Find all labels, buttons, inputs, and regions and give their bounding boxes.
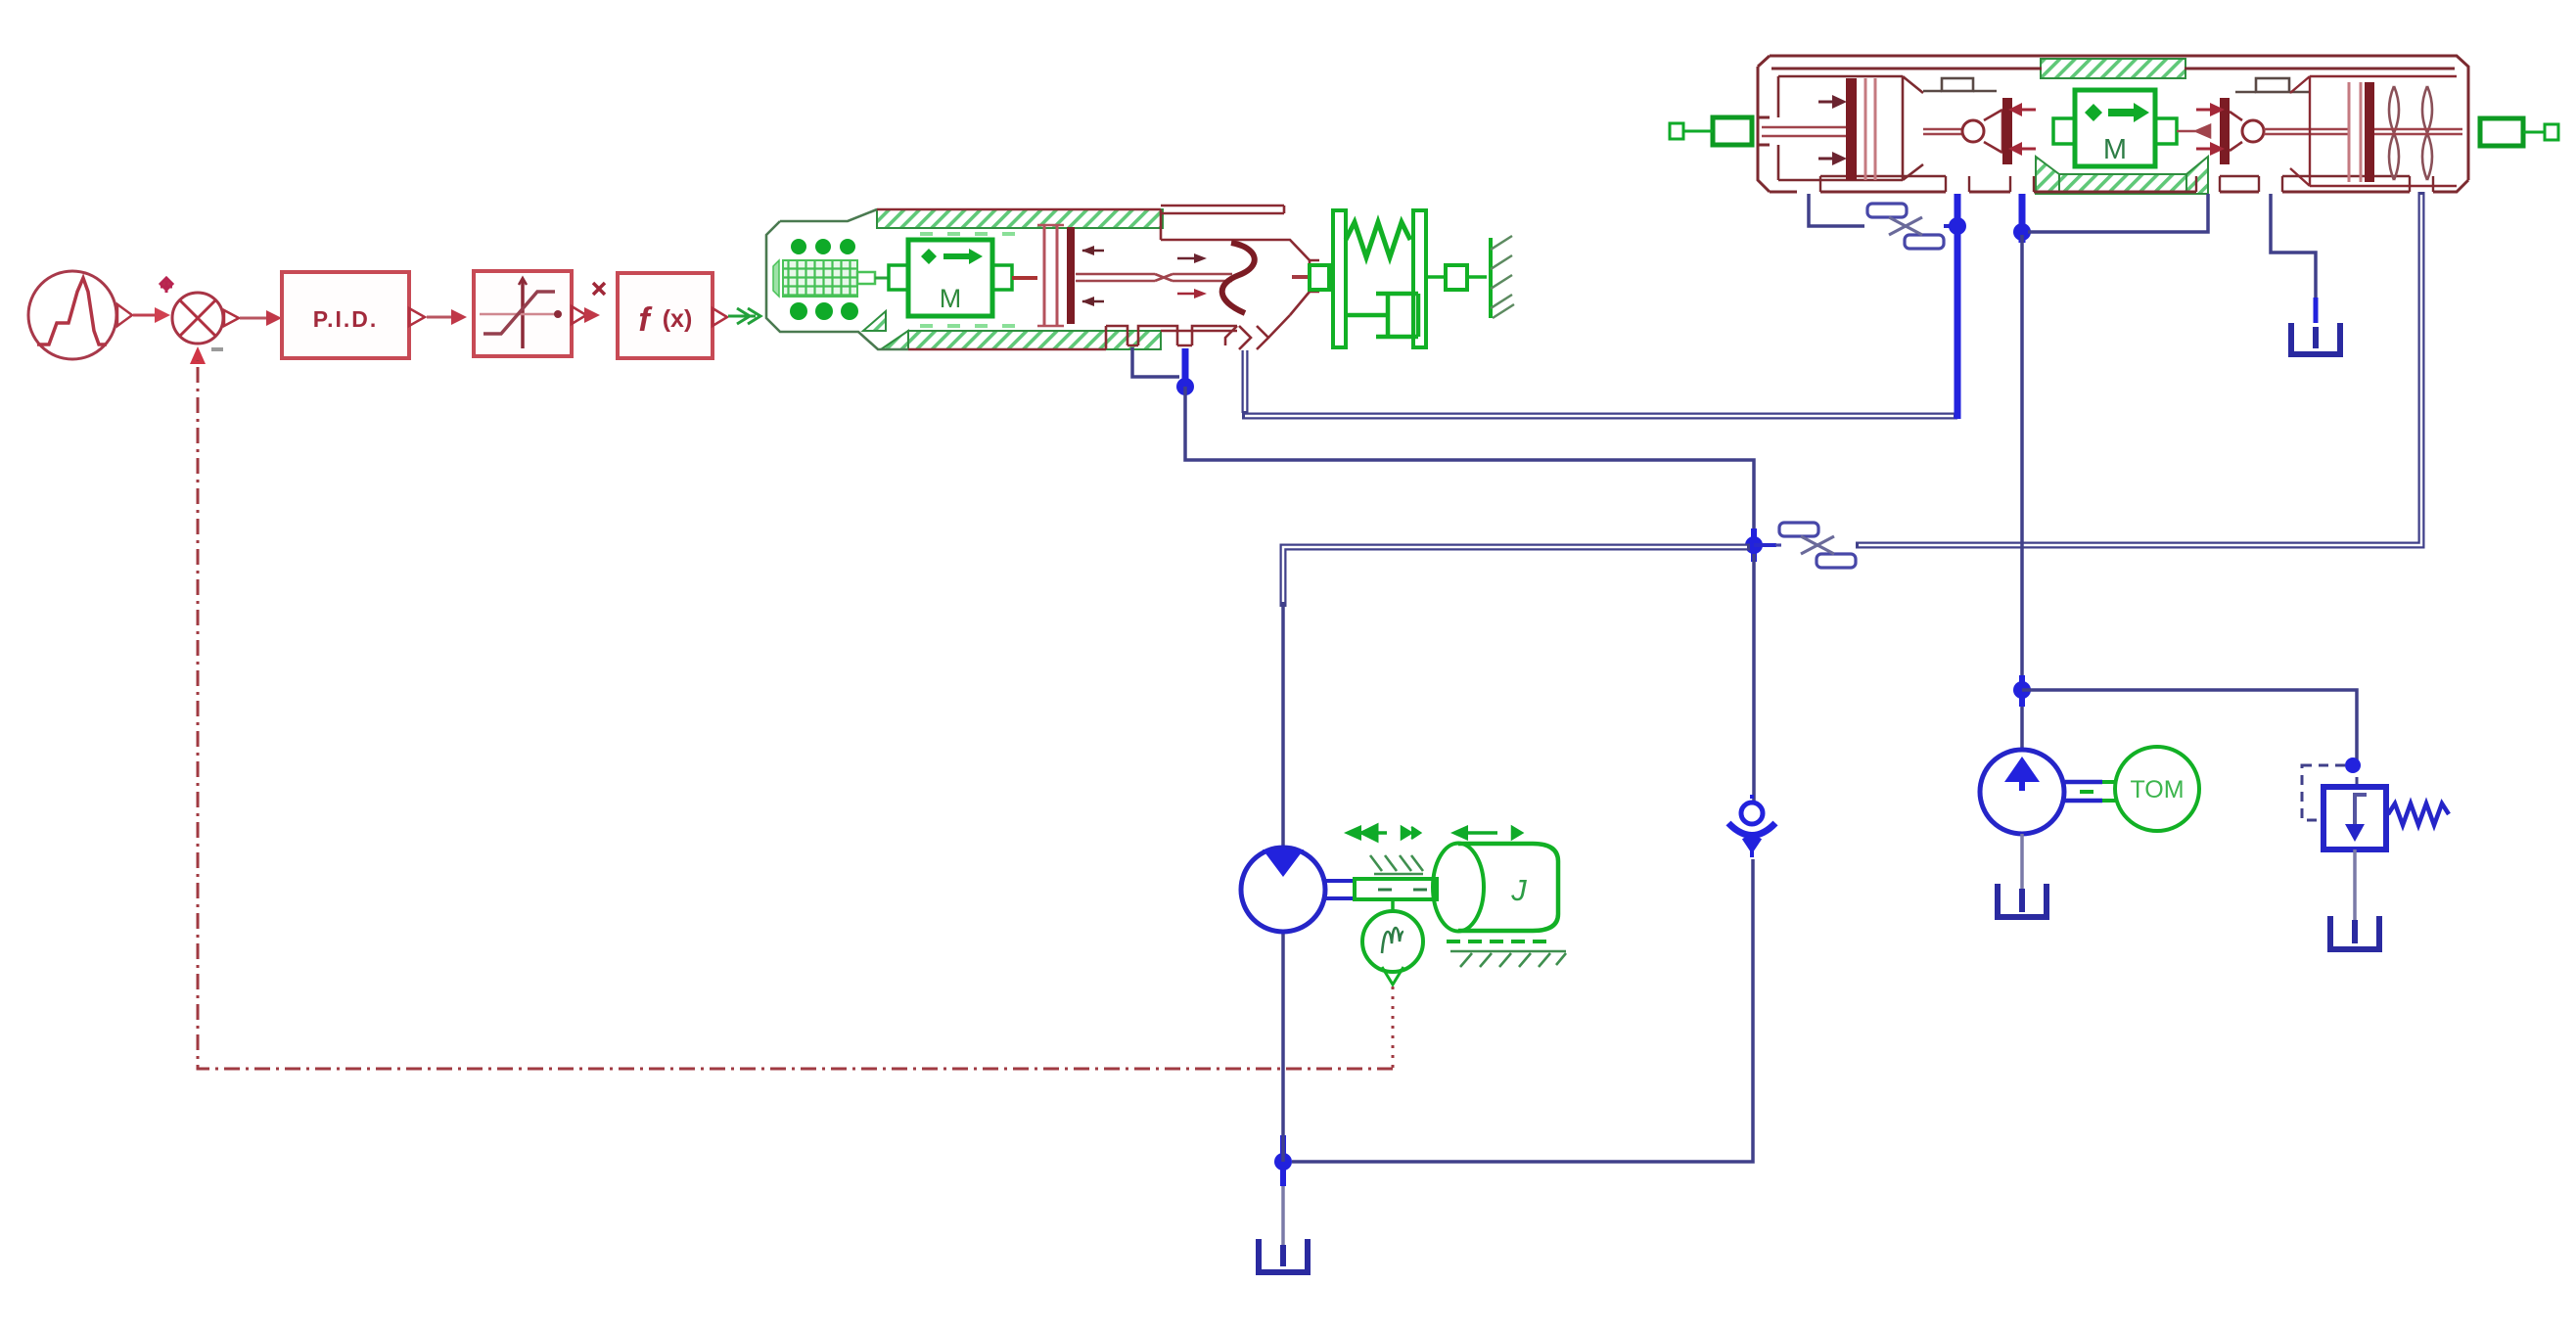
green double arrows above J [1450, 825, 1468, 841]
V1 port wire thick (bright blue) [1182, 348, 1189, 391]
V2 spring coils [2389, 86, 2399, 180]
pump shaft to TOM [2065, 782, 2102, 801]
tank T4 [2330, 916, 2379, 949]
V1 bottom hatch band [908, 331, 1161, 349]
green shaft rod [1355, 879, 1437, 899]
V2 M box connectors [2053, 118, 2075, 144]
spring-damper load of V1 [1310, 210, 1491, 347]
long pipe V1 port3 to V2 port2 (double line) [1242, 413, 1957, 420]
summing junction [172, 293, 223, 344]
motor shaft (blue then green) [1325, 881, 1355, 898]
V2 outer body outline [1758, 56, 2468, 192]
wall anchor hatch for spring-damper [1491, 236, 1514, 318]
V1 port wire left (navy) [1132, 347, 1179, 377]
V2 right piston [2348, 82, 2351, 182]
V1 mass M box left connector [889, 265, 908, 290]
orifice O1 [1867, 204, 1944, 249]
V2 shaft to right connector [2374, 129, 2462, 134]
V2 bottom edge with port notches [1820, 180, 2468, 192]
V2 bottom hatch band [2059, 174, 2186, 194]
P.I.D. block [282, 272, 467, 358]
svg-text:M: M [2103, 134, 2127, 165]
pipe junction V1 down and right to junction A [1185, 387, 1754, 536]
svg-text:TOM: TOM [2130, 776, 2184, 803]
V1 mass M box right connector [992, 265, 1012, 290]
V2 left shaft [1762, 127, 1846, 136]
pipe down to motor top [1281, 602, 1285, 849]
V1 mass M box [908, 240, 992, 316]
f(x) block [618, 273, 727, 358]
junction D (pump top / relief tee) [2013, 681, 2031, 699]
svg-text:P.I.D.: P.I.D. [313, 306, 379, 332]
pump bottom to tank T2 [2020, 834, 2024, 889]
V2 port1 wire to orifice O1 [1809, 194, 1864, 226]
relief valve to tank T4 [2353, 849, 2357, 920]
V2 port3 wire down to pump [2019, 194, 2026, 243]
junction B to tank T1 [1281, 1186, 1285, 1245]
V1 arrows dark-red right pair [1177, 257, 1194, 260]
pipe junction A down to check valve [1752, 554, 1756, 801]
V2 bottom hatch wedges [2036, 157, 2059, 194]
V2 top hatch band [2041, 59, 2185, 78]
pipe check valve down to junction B [1292, 859, 1753, 1162]
junction V1 [1176, 378, 1194, 395]
V2 nozzle-flapper left [1962, 120, 1984, 142]
V1 coil crosshatch core [783, 260, 857, 297]
green wire f(x) to valve [728, 315, 756, 318]
V1 right end cap + shaft out [1310, 260, 1319, 292]
V1 body bottom with port notches [908, 326, 1237, 349]
shaft anchor hatch above [1370, 855, 1423, 874]
valve V1 (proportional servo valve) [766, 206, 1319, 349]
V2 left chamber inner box [1778, 76, 1923, 180]
feedback arrowhead up into summer [190, 346, 206, 364]
V2 top stub right [2256, 78, 2289, 92]
inertia J cylinder [1433, 844, 1558, 932]
svg-text:J: J [1510, 873, 1527, 907]
V2 M box [2075, 90, 2155, 166]
V2 right chamber inner box [2290, 76, 2457, 186]
V2 green stub right [2480, 118, 2523, 146]
saturation block [474, 271, 605, 356]
orifice O1 to junction C [1944, 224, 1957, 228]
tank T3 [2291, 323, 2340, 354]
summer output arrow [224, 310, 239, 326]
relief valve RV1 [2302, 757, 2449, 849]
TOM drive circle [2115, 747, 2199, 831]
pipe junction D to relief valve [2022, 690, 2357, 763]
V1 green dash marks [920, 232, 1015, 328]
tank T2 [1998, 884, 2047, 917]
green double arrows top left [1361, 825, 1387, 841]
minus label [211, 347, 223, 351]
V1 spool dark bar [1067, 227, 1075, 324]
svg-text:M: M [940, 284, 962, 313]
check valve CV1 [1728, 795, 1775, 857]
V1 core to M rod [857, 272, 875, 284]
junction A [1745, 536, 1763, 554]
V1 port3 pipe down (double) [1242, 350, 1249, 413]
junction B [1274, 1153, 1292, 1170]
V2 port5 wire to tank T3 [2271, 194, 2316, 311]
pipe junction A to orifice O2 [1754, 543, 1776, 547]
V1 right bottom chevrons [1239, 315, 1290, 349]
pipe junction A left to motor (double) [1283, 547, 1750, 607]
hydraulic motor HM1 [1241, 848, 1325, 932]
V1 solenoid coil dots [790, 239, 858, 320]
signal source [28, 271, 132, 359]
V2 port2 thick wire down to long pipe [1955, 194, 1961, 419]
pump P1 [1980, 707, 2064, 834]
V2 small crimson arrows left pair [2022, 109, 2036, 112]
tank T1 [1259, 1239, 1308, 1272]
speed sensor Mw circle [1362, 900, 1423, 985]
V1 bottom-left hatch wedge [863, 311, 908, 349]
V2 top stub left [1942, 78, 1973, 91]
V1 shaft double with bowtie [1076, 274, 1232, 281]
V1 main body outline (dark red) [877, 206, 1310, 315]
V1 top hatch band [877, 209, 1163, 228]
V2 left arrows [1818, 101, 1832, 104]
V1 solenoid housing outline [766, 209, 908, 349]
V2 right chamber shaft [2264, 129, 2349, 134]
V2 port4 wire left to port3 junction [2028, 194, 2208, 232]
V2 middle chamber shaft [1923, 129, 1963, 134]
V1 piston light verticals [1043, 225, 1046, 326]
V1 shaft rod from M to spool [1012, 276, 1037, 280]
arrowhead into summer [155, 307, 170, 323]
pipe orifice O2 to V2 port6 (double) [1856, 192, 2421, 545]
plus sign [161, 278, 172, 293]
V1 feedback S-spring [1222, 243, 1255, 313]
valve V2 (two-stage directional valve) [1670, 56, 2558, 194]
wire source to summer [133, 314, 164, 317]
svg-text:(x): (x) [663, 305, 693, 333]
ground hatch below J [1447, 940, 1546, 943]
motor bottom pipe to junction B [1281, 930, 1285, 1162]
feedback dash-dot line (sensor to summer) [1392, 987, 1395, 1069]
orifice O2 [1775, 523, 1856, 568]
V2 nozzle-flapper right (mirrored) [2220, 98, 2230, 164]
V2 left piston [1846, 78, 1857, 180]
V2 green stub left [1713, 117, 1752, 145]
V1 arrows dark left pair [1082, 250, 1104, 252]
